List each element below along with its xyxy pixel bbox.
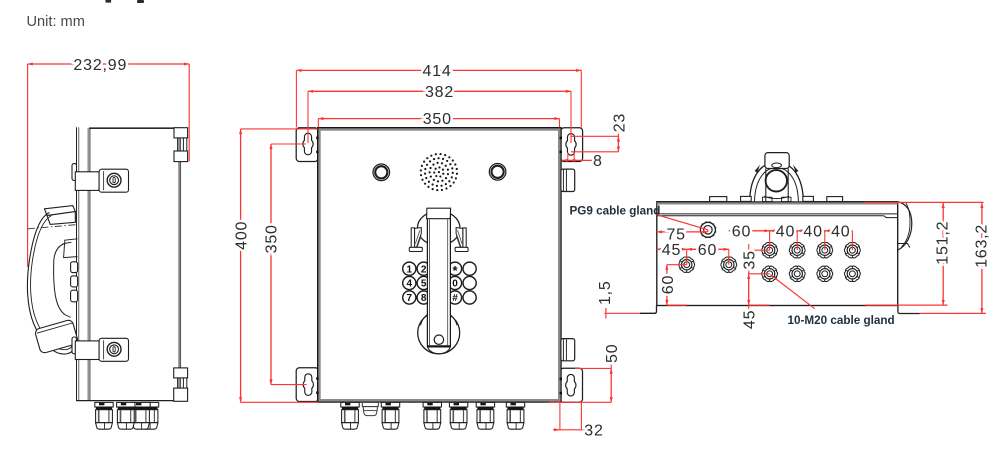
- dim 350 top: [318, 118, 559, 120]
- front view: handset earpiece: [417, 211, 460, 245]
- svg-text:PG9 cable gland: PG9 cable gland: [570, 204, 661, 217]
- front view: cradle hook right: [463, 228, 466, 251]
- dim 50: [610, 368, 612, 402]
- svg-text:0: 0: [452, 279, 458, 290]
- 10-M20 label and leader: [770, 275, 814, 309]
- side view: cradle hook bracket: [64, 239, 78, 258]
- svg-text:4: 4: [407, 279, 413, 290]
- bottom view: small tabs on top edge: [710, 197, 727, 202]
- svg-text:45: 45: [742, 310, 759, 329]
- side view: handset centerline (dash-dot): [28, 225, 77, 229]
- front view: mic hole: [434, 335, 443, 344]
- dim 60 vertical left: [667, 264, 687, 266]
- bottom view: enclosure outline: [657, 202, 898, 306]
- front view: keyhole slot top-left: [303, 133, 313, 155]
- svg-text:2: 2: [421, 264, 427, 275]
- front view: keyhole slot top-right: [566, 134, 576, 156]
- heading descender remnants (cut-off title text): [106, 0, 112, 3]
- side view: door hinge bumps: [72, 164, 77, 181]
- shared bottom extension line (left of box): [241, 401, 319, 403]
- front view: enclosure box: [318, 128, 561, 402]
- side view: handset earpiece cap: [45, 206, 76, 216]
- front view: mounting ear bottom-right: [560, 368, 583, 402]
- svg-text:8: 8: [421, 293, 427, 304]
- side view: enclosure body: [89, 127, 180, 129]
- svg-text:35: 35: [742, 250, 759, 269]
- side view: wall bracket bottom: [174, 368, 188, 378]
- dim 45 horizontal: [657, 248, 687, 250]
- svg-text:400: 400: [233, 221, 250, 250]
- dim 1,5: [604, 312, 639, 314]
- svg-text:23: 23: [611, 113, 628, 132]
- dim 23 extension lines: [571, 135, 618, 137]
- dim 350 left stubs: [271, 143, 306, 145]
- side view: bottom cable glands: [140, 402, 158, 429]
- bottom view: cradle assembly: [750, 162, 804, 201]
- svg-text:8: 8: [593, 153, 603, 170]
- side view: door panel edge lines: [76, 127, 78, 401]
- dim 163,2 extensions: [920, 312, 986, 314]
- front view: mounting ear bottom-left: [296, 368, 318, 402]
- front view: cradle hook left: [411, 228, 414, 251]
- dim 75: [657, 231, 708, 233]
- dim 414 extension lines: [295, 70, 297, 127]
- front view: handset bottom cap: [427, 345, 450, 347]
- side view: bottom latch with keyhole: [75, 341, 99, 360]
- dim 414: [296, 69, 581, 71]
- svg-text:350: 350: [423, 111, 452, 128]
- svg-text:5: 5: [421, 279, 427, 290]
- dim 60 horizontal: [687, 248, 729, 250]
- shared bottom extension line (right of box): [549, 401, 611, 403]
- dim 382: [308, 90, 571, 92]
- front view: keyhole slot bottom-left: [303, 374, 313, 396]
- svg-text:151,2: 151,2: [934, 221, 951, 265]
- bottom view: cradle top block: [765, 153, 789, 169]
- svg-text:60: 60: [732, 223, 751, 240]
- side view: top latch with keyhole: [75, 172, 99, 191]
- svg-text:60: 60: [660, 275, 677, 294]
- front view: right hinge top: [561, 169, 575, 191]
- side view: dimension 232,99 extension lines: [27, 64, 29, 267]
- svg-text:7: 7: [407, 293, 413, 304]
- front view: right hinge bottom: [561, 339, 575, 361]
- svg-text:#: #: [452, 293, 458, 304]
- side view: cradle buttons: [71, 262, 78, 273]
- dim 45 vertical: [748, 274, 750, 305]
- dim 32: [553, 429, 586, 431]
- bottom view: PG9 gland: [700, 222, 715, 237]
- side view: dimension 232,99: [28, 63, 190, 65]
- front view: handset handle: [427, 209, 450, 347]
- dim 382 extension lines: [307, 91, 309, 143]
- svg-text:32: 32: [584, 423, 603, 440]
- svg-text:Unit: mm: Unit: mm: [27, 14, 85, 30]
- front view: mounting ear top-right: [561, 128, 583, 162]
- front view: speaker grille: [438, 171, 440, 173]
- bottom view: M20 glands: [679, 257, 695, 272]
- dim 400 stub: [241, 128, 318, 130]
- front view: keypad buttons: [403, 262, 416, 275]
- svg-text:382: 382: [425, 84, 454, 101]
- bottom view: right hinge wing: [898, 202, 912, 250]
- svg-text:232,99: 232,99: [73, 57, 127, 74]
- dim 35: [749, 249, 770, 251]
- svg-text:40: 40: [803, 223, 822, 240]
- bottom view: right foot step: [898, 306, 920, 314]
- front view: handset mouthpiece circle: [418, 312, 460, 354]
- front view: mounting ear top-left: [296, 128, 318, 162]
- dim 151,2: [942, 203, 944, 305]
- front view: keyhole slot bottom-right: [566, 374, 576, 396]
- side view: wall bracket top: [174, 128, 188, 138]
- bottom view: top band: [657, 202, 898, 205]
- svg-text:40: 40: [831, 223, 850, 240]
- side view: handset mouthpiece: [34, 319, 78, 354]
- PG9 label and leader: [657, 215, 708, 230]
- svg-text:414: 414: [422, 63, 451, 80]
- bottom view: left foot step: [640, 306, 657, 314]
- front view: ear attachment nubs: [316, 137, 318, 140]
- dim 23: [617, 131, 619, 136]
- front view: screw left: [373, 164, 390, 181]
- svg-text:60: 60: [698, 242, 717, 259]
- dim 350 top extension lines: [317, 119, 319, 128]
- svg-text:350: 350: [264, 224, 281, 253]
- side view: handset inner cutout: [54, 244, 66, 315]
- svg-text:10-M20 cable gland: 10-M20 cable gland: [788, 314, 895, 327]
- dim 163,2: [981, 203, 983, 314]
- svg-text:50: 50: [604, 344, 621, 363]
- dim 50 stub: [575, 367, 611, 369]
- bottom view: cradle circle: [766, 170, 787, 191]
- svg-text:75: 75: [666, 226, 685, 243]
- side view: handset outer curve: [27, 213, 73, 355]
- dim 151,2 extensions: [864, 201, 984, 203]
- dim 32 extension lines: [559, 403, 561, 430]
- svg-text:1,5: 1,5: [597, 280, 614, 305]
- svg-text:40: 40: [776, 223, 795, 240]
- svg-text:1: 1: [407, 264, 413, 275]
- dim 400 vertical: [240, 129, 242, 402]
- front view: screw right: [489, 164, 506, 181]
- dim 8: [562, 159, 594, 161]
- dim 350 left vertical: [270, 144, 272, 385]
- svg-text:163,2: 163,2: [973, 224, 990, 268]
- front view: bottom cable glands: [341, 402, 359, 429]
- svg-text:45: 45: [662, 242, 681, 259]
- dim chain 60/40/40/40: [729, 230, 770, 232]
